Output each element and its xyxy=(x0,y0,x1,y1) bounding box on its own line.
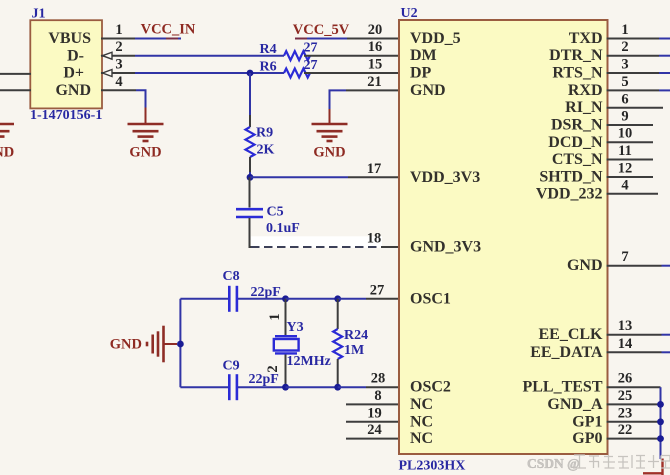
wire EE_CLK to edge xyxy=(662,334,670,336)
svg-text:27: 27 xyxy=(370,282,385,298)
selected wire to U2 pin18 (dashed) xyxy=(251,246,381,248)
U2 pin28 stub xyxy=(366,386,400,388)
U2 pin13 stub EE_CLK xyxy=(607,334,662,336)
wire D+ row to R6 xyxy=(135,72,284,74)
U2 pin7 stub GND xyxy=(607,265,662,267)
wire C9 to OSC2 junction xyxy=(238,386,286,388)
svg-text:GND: GND xyxy=(55,82,91,99)
junction node VDD_3V3 xyxy=(247,174,254,181)
svg-text:EE_DATA: EE_DATA xyxy=(530,344,603,361)
R9 top lead xyxy=(249,115,251,127)
wire GND7 to edge xyxy=(662,265,670,267)
svg-text:Y3: Y3 xyxy=(287,320,304,335)
IC U2 body xyxy=(399,20,608,454)
svg-text:R24: R24 xyxy=(344,328,368,343)
junction node GND_A xyxy=(657,401,664,408)
power port bar VCC_IN xyxy=(166,38,178,40)
svg-text:2: 2 xyxy=(621,39,628,55)
wire OSC2 junction to R24 junction xyxy=(286,386,338,388)
U2 pin25 stub GND_A xyxy=(607,403,661,405)
svg-text:D+: D+ xyxy=(63,65,84,82)
U2 pin1 stub TXD xyxy=(607,38,660,40)
svg-text:R4: R4 xyxy=(260,42,277,57)
capacitor C8 xyxy=(229,286,237,312)
svg-text:RI_N: RI_N xyxy=(565,99,603,116)
svg-text:GND: GND xyxy=(313,145,345,161)
wire R6 to U2 pin15 xyxy=(304,72,400,74)
svg-text:VDD_5: VDD_5 xyxy=(410,30,461,47)
svg-text:27: 27 xyxy=(304,58,318,73)
svg-text:23: 23 xyxy=(618,405,633,421)
U2 pin19 NC stub xyxy=(346,421,400,423)
svg-text:GND: GND xyxy=(0,145,14,161)
svg-text:VCC_5V: VCC_5V xyxy=(293,22,350,38)
svg-text:GND_3V3: GND_3V3 xyxy=(410,239,481,256)
svg-text:OSC1: OSC1 xyxy=(410,290,451,307)
wire D- row to R4 xyxy=(135,55,284,57)
svg-text:3: 3 xyxy=(621,57,628,73)
resistor R6 xyxy=(284,69,310,78)
R24 top lead xyxy=(337,299,339,329)
svg-text:2: 2 xyxy=(115,39,122,55)
svg-text:D-: D- xyxy=(67,47,84,64)
svg-text:12MHz: 12MHz xyxy=(287,354,331,369)
svg-text:9: 9 xyxy=(621,109,628,125)
U2 pin11 stub CTS_N xyxy=(607,159,654,161)
svg-text:VDD_3V3: VDD_3V3 xyxy=(410,169,480,186)
wire to C9 xyxy=(180,386,228,388)
svg-text:16: 16 xyxy=(368,39,383,55)
svg-text:4: 4 xyxy=(115,74,122,90)
svg-text:DCD_N: DCD_N xyxy=(548,134,603,151)
svg-text:0.1uF: 0.1uF xyxy=(266,221,300,236)
svg-text:6: 6 xyxy=(621,91,628,107)
svg-text:19: 19 xyxy=(367,405,382,421)
resistor R4 xyxy=(284,51,310,60)
C5 top lead xyxy=(249,177,251,207)
R9 bottom lead xyxy=(249,157,251,172)
junction node GP1 xyxy=(657,418,664,425)
U2 pin6 stub RI_N xyxy=(607,107,664,109)
vertical bus wire right edge xyxy=(660,387,662,459)
sideways ground stem xyxy=(164,343,177,345)
wire into J1 D+ from left edge xyxy=(0,73,31,75)
svg-text:DSR_N: DSR_N xyxy=(551,117,603,134)
resistor R24 xyxy=(333,329,342,359)
svg-text:GND_A: GND_A xyxy=(547,396,603,413)
junction node OSC1 R24 xyxy=(334,295,341,302)
svg-text:VCC_IN: VCC_IN xyxy=(141,22,196,38)
svg-text:8: 8 xyxy=(374,388,381,404)
svg-text:27: 27 xyxy=(304,41,318,56)
svg-text:C9: C9 xyxy=(223,359,240,374)
svg-text:VDD_232: VDD_232 xyxy=(536,185,603,202)
U2 pin17 stub xyxy=(348,176,400,178)
wire to C8 xyxy=(180,298,228,300)
wire RTS_N to edge xyxy=(659,72,670,74)
U2 pin18 stub xyxy=(381,246,400,248)
junction node at R6 input xyxy=(247,70,254,77)
U2 pin22 stub GP0 xyxy=(607,438,661,440)
svg-text:EE_CLK: EE_CLK xyxy=(538,326,603,343)
svg-text:4: 4 xyxy=(621,177,628,193)
svg-text:J1: J1 xyxy=(32,7,46,22)
svg-text:1: 1 xyxy=(621,22,628,38)
power port VCC_5V bar xyxy=(295,38,347,40)
svg-text:U2: U2 xyxy=(401,6,418,21)
junction node OSC2 crystal xyxy=(282,384,289,391)
wire TXD to edge xyxy=(659,38,670,40)
junction node OSC1 crystal xyxy=(282,295,289,302)
svg-text:DTR_N: DTR_N xyxy=(549,47,603,64)
U2 pin12 stub SHTD_N xyxy=(607,176,654,178)
ground symbol cut off at left edge xyxy=(0,124,14,137)
svg-text:R6: R6 xyxy=(260,59,277,74)
svg-text:28: 28 xyxy=(371,371,386,387)
svg-text:GP1: GP1 xyxy=(572,413,602,430)
J1 pin 3 input arrow xyxy=(103,70,113,77)
svg-text:NC: NC xyxy=(410,396,433,413)
svg-text:RTS_N: RTS_N xyxy=(552,65,603,82)
U2 pin10 stub DCD_N xyxy=(607,141,654,143)
svg-text:CTS_N: CTS_N xyxy=(552,151,603,168)
U2 pin23 stub GP1 xyxy=(607,421,661,423)
wire to U2 pin28 xyxy=(338,386,366,388)
ground symbol below pin21 xyxy=(312,124,348,141)
svg-text:25: 25 xyxy=(618,388,633,404)
svg-text:12: 12 xyxy=(618,161,633,177)
C5 bottom lead xyxy=(250,218,252,247)
wire junction to U2 pin17 xyxy=(250,176,348,178)
svg-text:22pF: 22pF xyxy=(249,372,279,387)
U2 pin9 stub DSR_N xyxy=(607,124,654,126)
svg-text:21: 21 xyxy=(367,74,382,90)
wire pin1 to VCC_IN xyxy=(135,38,181,40)
wire EE_DATA to edge xyxy=(662,351,670,353)
wire R9 to junction xyxy=(249,172,251,177)
svg-text:GND: GND xyxy=(110,337,142,353)
svg-text:1M: 1M xyxy=(344,343,364,358)
svg-text:GND: GND xyxy=(410,82,446,99)
sideways ground symbol xyxy=(147,326,164,363)
ground stem below pin21 xyxy=(329,109,331,124)
svg-text:R9: R9 xyxy=(256,126,273,141)
resistor R9 xyxy=(246,127,255,157)
svg-text:NC: NC xyxy=(410,413,433,430)
svg-text:GND: GND xyxy=(129,145,161,161)
svg-text:11: 11 xyxy=(618,143,632,159)
svg-text:DM: DM xyxy=(410,47,437,64)
U2 pin21 stub xyxy=(346,89,400,91)
sheet symbol corner bottom right xyxy=(643,459,664,475)
U2 pin2 stub DTR_N xyxy=(607,55,660,57)
svg-text:13: 13 xyxy=(618,318,633,334)
left vertical wire of crystal loop xyxy=(179,299,181,387)
wire into J1 GND from left edge xyxy=(0,89,31,91)
wire pin4 corner down xyxy=(136,90,146,107)
svg-text:VBUS: VBUS xyxy=(48,30,91,47)
svg-text:20: 20 xyxy=(368,22,383,38)
U2 pin3 stub RTS_N xyxy=(607,72,660,74)
svg-text:CSDN @: CSDN @ xyxy=(527,456,580,471)
U2 pin14 stub EE_DATA xyxy=(607,351,662,353)
U2 pin5 stub RXD xyxy=(607,89,660,91)
svg-text:22: 22 xyxy=(618,422,633,438)
crystal Y3 top pin xyxy=(285,299,287,335)
svg-text:10: 10 xyxy=(618,126,633,142)
watermark CJK glyph blocks xyxy=(573,455,670,468)
svg-text:14: 14 xyxy=(618,336,633,352)
ground symbol below J1 xyxy=(128,124,164,141)
wire R4 to U2 pin16 xyxy=(304,55,400,57)
wire RXD to edge xyxy=(659,89,670,91)
J1 pin 2 input arrow xyxy=(103,52,113,59)
svg-text:5: 5 xyxy=(621,74,628,90)
crystal Y3 electrodes and body xyxy=(274,336,299,353)
svg-text:C5: C5 xyxy=(267,205,284,220)
svg-text:15: 15 xyxy=(368,57,383,73)
svg-text:7: 7 xyxy=(621,249,628,265)
svg-text:1-1470156-1: 1-1470156-1 xyxy=(30,108,102,123)
svg-text:GND: GND xyxy=(567,257,603,274)
junction node OSC2 R24 xyxy=(334,384,341,391)
J1 pin 1 stub xyxy=(101,38,135,40)
U2 pin20 stub xyxy=(347,38,400,40)
svg-text:3: 3 xyxy=(115,57,122,73)
svg-text:PL2303HX: PL2303HX xyxy=(399,459,466,474)
connector J1 body xyxy=(30,20,102,108)
U2 pin8 NC stub xyxy=(346,403,400,405)
junction node at sideways ground xyxy=(177,341,184,348)
junction node GP0 xyxy=(657,435,664,442)
wire corner to ground at pin21 xyxy=(330,90,347,109)
svg-text:OSC2: OSC2 xyxy=(410,379,451,396)
wire C8 to OSC1 junction xyxy=(238,298,286,300)
svg-text:24: 24 xyxy=(367,422,382,438)
svg-text:PLL_TEST: PLL_TEST xyxy=(522,379,602,396)
J1 pin 4 stub xyxy=(101,89,136,91)
wire OSC1 junction to R24 junction xyxy=(286,298,338,300)
svg-text:NC: NC xyxy=(410,430,433,447)
svg-text:1: 1 xyxy=(115,22,122,38)
U2 pin26 stub PLL_TEST xyxy=(607,386,661,388)
J1 pin 3 stub xyxy=(101,72,135,74)
crystal Y3 bottom pin xyxy=(285,355,287,388)
wire DTR_N to edge xyxy=(659,55,670,57)
svg-text:RXD: RXD xyxy=(568,82,603,99)
svg-text:SHTD_N: SHTD_N xyxy=(539,169,603,186)
svg-text:17: 17 xyxy=(367,161,382,177)
svg-text:DP: DP xyxy=(410,65,432,82)
capacitor C5 xyxy=(236,209,263,217)
svg-text:TXD: TXD xyxy=(569,30,603,47)
wire junction down to R9 xyxy=(249,73,251,115)
wire to U2 pin27 xyxy=(338,298,366,300)
R24 bottom lead xyxy=(337,359,339,387)
J1 pin 2 stub xyxy=(101,55,135,57)
ground stem below J1 pin4 xyxy=(145,108,147,125)
watermark CSDN xyxy=(527,456,580,471)
svg-text:18: 18 xyxy=(367,231,382,247)
U2 pin4 stub VDD_232 xyxy=(607,193,659,195)
svg-text:26: 26 xyxy=(618,371,633,387)
svg-text:2K: 2K xyxy=(257,143,275,158)
U2 pin24 NC stub xyxy=(346,438,400,440)
selection highlight band on GND_3V3 wire xyxy=(251,236,382,248)
svg-text:GP0: GP0 xyxy=(572,430,602,447)
svg-text:1: 1 xyxy=(267,313,283,320)
power port VCC_5V red end xyxy=(295,38,307,40)
svg-text:C8: C8 xyxy=(223,269,240,284)
capacitor C9 xyxy=(229,374,237,400)
U2 pin27 stub xyxy=(366,298,400,300)
